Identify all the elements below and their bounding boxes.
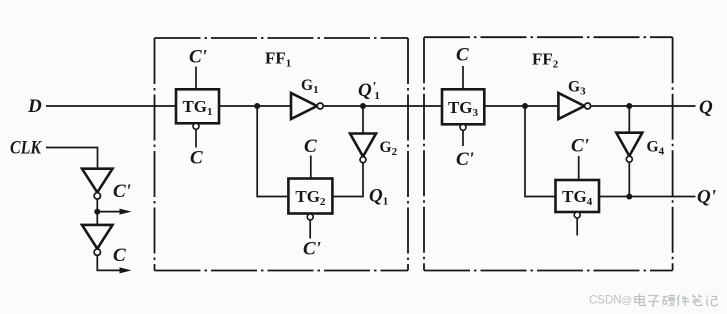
svg-text:CSDN: CSDN [589,295,622,307]
svg-text:C: C [456,45,469,66]
svg-text:C': C' [113,181,131,202]
node Q' junction [626,194,632,200]
TG3 bottom bubble [460,124,466,130]
wire D input [46,105,176,107]
node Q branch [626,103,632,109]
wire C' arrow [97,211,122,213]
wire CLK input [46,148,98,169]
svg-text:Q: Q [699,97,713,118]
wire CLK-A out [96,199,98,225]
svg-text:C': C' [456,149,474,170]
inverter G2 [350,134,376,163]
svg-text:C: C [190,148,203,169]
node junction FF1 feedback [254,103,260,109]
wire Q node down to G4 [628,106,630,133]
svg-text:C: C [113,245,126,266]
wire TG3 to G3 [484,105,558,107]
inverter G4 [616,133,642,163]
wire junction down to TG2 [257,106,288,197]
transmission gate TG2 [288,179,332,214]
wire TG2 C stub [310,156,312,179]
inverter CLK-A [82,169,113,199]
svg-text:C: C [304,136,317,157]
wire TG3 C' stub [462,130,464,146]
transmission gate TG1 [176,89,219,123]
wire TG1 to G1 [219,105,291,107]
svg-text:@: @ [622,295,633,307]
node Q1' [360,103,366,109]
wire G2 to TG2 output node [332,163,363,197]
wire G4 to Q' node [628,162,630,196]
wire G1 to TG3 [323,105,442,107]
FF1 dashed box [155,38,409,271]
TG1 bottom bubble [193,123,199,129]
TG2 bottom bubble [307,214,313,220]
svg-text:CLK: CLK [10,138,42,159]
svg-text:D: D [27,96,42,117]
node C' junction [94,209,100,215]
wire TG4 bottom stub [576,218,578,236]
wire TG2 C' stub [309,220,311,239]
svg-text:C': C' [303,239,321,260]
node junction FF2 feedback [522,103,528,109]
inverter G3 [558,93,590,119]
FF2 dashed box [424,37,673,270]
wire TG1 C stub [195,129,197,147]
wire TG1 C' stub [195,67,197,90]
wire G3 to Q output [591,105,696,107]
inverter CLK-B [82,225,113,256]
transmission gate TG4 [556,180,600,212]
svg-text:C': C' [189,47,207,68]
wire Q1' down to G2 [362,106,364,134]
wire Q' output [599,196,696,198]
wire junction down to TG4 [525,106,556,197]
TG4 bottom bubble [574,212,580,218]
svg-text:Q': Q' [697,187,716,208]
wire C arrow [97,255,122,270]
wire TG3 C stub [462,66,464,89]
inverter G1 [291,93,323,119]
wire TG4 C' stub [578,156,580,180]
watermark hanzi 电子硬件笔记 [635,294,717,307]
transmission gate TG3 [442,89,484,124]
svg-text:C': C' [571,136,589,157]
